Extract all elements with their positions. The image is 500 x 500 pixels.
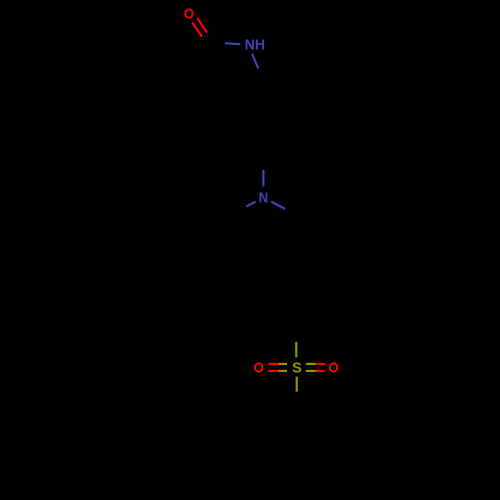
bond S-C yellow half below S bbox=[296, 377, 298, 392]
svg-text:O: O bbox=[328, 360, 339, 377]
svg-text:NH: NH bbox=[245, 36, 266, 53]
svg-text:S: S bbox=[292, 359, 302, 376]
bond CH2-N vertical blue half above ring N bbox=[262, 170, 264, 187]
svg-text:N: N bbox=[259, 190, 269, 207]
bond C-S yellow half above S bbox=[295, 342, 297, 357]
right S=O double bond: red halves near O bbox=[316, 364, 326, 371]
svg-text:O: O bbox=[184, 6, 195, 23]
carbonyl C=O double bond (red halves) bbox=[192, 18, 207, 37]
left S=O double bond: yellow halves near S bbox=[278, 364, 287, 371]
left S=O double bond: red halves near O bbox=[268, 364, 278, 371]
svg-text:O: O bbox=[254, 360, 265, 377]
bond C(=O)-N(H) blue half bbox=[225, 43, 240, 44]
bond NH-CH2 blue half bbox=[252, 54, 258, 69]
right S=O double bond: yellow halves near S bbox=[306, 364, 316, 371]
bond N-C2 blue half (down-left) bbox=[246, 202, 256, 207]
bond N-C6 blue half (down-right) bbox=[271, 202, 285, 209]
